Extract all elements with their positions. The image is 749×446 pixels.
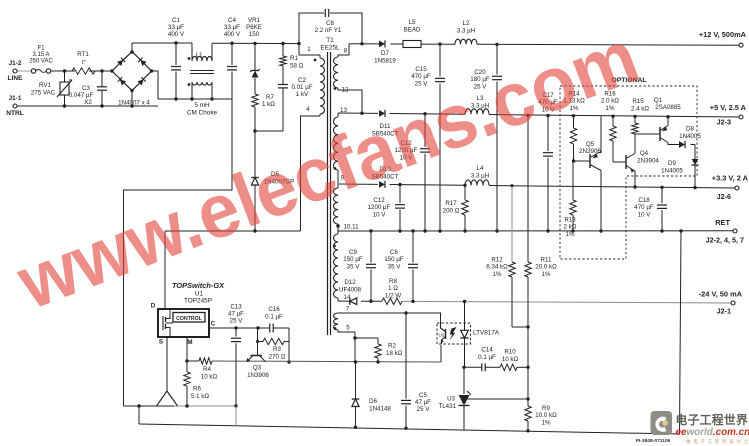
wire B- return down-left-down (124, 99, 233, 406)
resistor R6 (184, 361, 210, 406)
wire pin 12 link (339, 90, 362, 113)
svg-text:R17: R17 (445, 200, 457, 207)
wire R2 top (355, 338, 378, 344)
svg-text:1N4005: 1N4005 (661, 168, 683, 175)
svg-text:L5: L5 (409, 19, 416, 26)
node +3.3 R17/L4 (463, 184, 466, 187)
svg-text:10 kΩ: 10 kΩ (502, 356, 519, 363)
svg-text:C3: C3 (82, 85, 90, 92)
wire C pin line (209, 327, 258, 329)
resistor R11 (525, 257, 557, 278)
capacitor C12 (first) (395, 114, 430, 231)
svg-text:C16: C16 (268, 306, 280, 313)
svg-text:L4: L4 (477, 165, 484, 172)
node sense C14 line (526, 366, 529, 369)
svg-text:150 µF: 150 µF (343, 256, 363, 263)
wire B+ rail bridge to L1 (132, 42, 192, 44)
transformer T1 labels (306, 37, 359, 332)
svg-text:TOPSwitch-GX: TOPSwitch-GX (172, 281, 225, 290)
svg-text:D: D (151, 303, 156, 310)
inductor L2 (455, 20, 477, 44)
wire +12V rail D7 segment (349, 43, 403, 45)
svg-text:275 VAC: 275 VAC (31, 90, 56, 97)
wire -24V rail from D12/R8 (361, 301, 733, 303)
svg-text:13: 13 (340, 107, 347, 114)
wire opto transistor emitter (440, 345, 442, 362)
node +5 R11col (526, 114, 529, 117)
node sense ref line (526, 397, 529, 400)
svg-text:250 VAC: 250 VAC (29, 58, 53, 64)
svg-text:1N4007 x 4: 1N4007 x 4 (118, 100, 150, 107)
resistor R8 (382, 278, 402, 305)
capacitor C12 (second) (368, 185, 405, 231)
wire bottom return rail (139, 424, 680, 434)
resistor R9 (525, 399, 557, 426)
wire transformer pin 8 (339, 44, 349, 55)
node +5 R16 (611, 115, 614, 118)
bridge rectifier 1N4007 x 4 (110, 50, 153, 106)
svg-text:U2: U2 (439, 333, 445, 338)
node C14 line left (462, 366, 465, 369)
dashed box OPTIONAL (560, 77, 697, 259)
diode D9 (661, 145, 698, 188)
svg-text:1N4005: 1N4005 (679, 133, 701, 140)
svg-text:1%: 1% (542, 419, 551, 426)
node A (fuse/RV1 junction) (63, 69, 66, 72)
svg-text:J1-1: J1-1 (9, 95, 22, 102)
node RET R17 (463, 229, 466, 232)
node +5 C17 (546, 114, 549, 117)
node C5 bottom (404, 427, 407, 430)
wire R12 column (512, 186, 528, 327)
wire R1/C2 column (282, 44, 284, 132)
node +12 C20 (495, 43, 498, 46)
svg-text:J2-3: J2-3 (717, 118, 731, 127)
svg-text:25 V: 25 V (230, 318, 244, 325)
node C13 tap (234, 326, 237, 329)
transistor Q3 1N3906 (246, 356, 269, 380)
diode D10 (372, 166, 399, 188)
varistor RV1 (31, 71, 72, 106)
node B- L1 left stub (190, 97, 193, 100)
node return R6 (185, 404, 188, 407)
wire pin5 down (354, 332, 356, 362)
wire C14/R10 line (464, 366, 528, 368)
svg-text:U1: U1 (195, 291, 204, 298)
svg-text:T1: T1 (326, 37, 334, 44)
svg-text:电子工程世界: 电子工程世界 (676, 413, 749, 427)
terminal -24V (699, 290, 743, 316)
diode D6 (352, 362, 392, 427)
thermistor RT1 (72, 51, 95, 74)
svg-text:R13: R13 (564, 217, 576, 224)
svg-text:1%: 1% (542, 271, 551, 278)
svg-text:2.2 nF Y1: 2.2 nF Y1 (315, 27, 342, 34)
capacitor C4 (224, 17, 241, 99)
svg-text:470 µF: 470 µF (411, 73, 431, 80)
wire +12V rail bead to L2 (421, 43, 455, 45)
svg-text:C1: C1 (172, 17, 180, 24)
node C16/R3 left (256, 326, 259, 329)
capacitor C8 (315, 9, 342, 34)
terminal RET (706, 218, 744, 245)
svg-text:LTV817A: LTV817A (473, 330, 500, 337)
node B (RT1/C3 junction) (100, 69, 103, 72)
svg-text:200 Ω: 200 Ω (443, 208, 460, 215)
resistor R10 (500, 349, 519, 371)
node sense bottom (526, 429, 529, 432)
capacitor C18 (634, 187, 667, 231)
svg-text:TOP245P: TOP245P (184, 298, 212, 305)
svg-text:J2-1: J2-1 (717, 307, 731, 316)
node +5 R15 (633, 115, 636, 118)
node NTRL-C3 (100, 104, 103, 107)
svg-text:2N3906: 2N3906 (579, 148, 601, 155)
svg-text:RT1: RT1 (77, 51, 89, 58)
svg-text:47 µF: 47 µF (415, 399, 431, 406)
svg-text:18 kΩ: 18 kΩ (386, 350, 403, 357)
node pin5 R2 branch (353, 336, 356, 339)
svg-text:F1: F1 (37, 46, 45, 52)
wire RET to bottom return (680, 231, 682, 434)
svg-text:C9: C9 (349, 249, 357, 256)
svg-text:270 Ω: 270 Ω (269, 354, 286, 361)
svg-text:150 µF: 150 µF (384, 256, 404, 263)
node RET C9 (369, 229, 372, 232)
svg-text:C2: C2 (298, 77, 306, 84)
node +3.3 C12b (398, 183, 401, 186)
TVS VR1 (246, 17, 262, 78)
wire +5V rail D11 to L3 (390, 113, 466, 116)
wire +3.3V rail pin9 to D10 (339, 183, 378, 185)
wire M pin column (186, 337, 188, 361)
capacitor C9 (343, 231, 376, 301)
node bias D6 (354, 360, 357, 363)
svg-text:33 µF: 33 µF (168, 24, 184, 31)
wire pin 7 line to optocoupler (338, 313, 441, 323)
terminal +3.3V (712, 174, 749, 202)
svg-text:470 µF: 470 µF (634, 204, 654, 211)
transformer T1 secondary 13-9 (333, 113, 339, 188)
text PI-3848-071106 (636, 438, 671, 444)
svg-text:C8: C8 (326, 20, 334, 27)
wire opto LED anode (463, 300, 466, 330)
svg-text:C4: C4 (228, 17, 236, 24)
node NTRL-bridge (130, 104, 133, 107)
svg-text:0.1 µF: 0.1 µF (265, 314, 283, 321)
svg-text:D12: D12 (344, 279, 356, 286)
svg-text:R2: R2 (388, 343, 396, 350)
svg-text:R11: R11 (541, 257, 552, 264)
svg-text:D9: D9 (668, 160, 676, 167)
transformer T1 primary winding (314, 55, 325, 116)
capacitor C6 (384, 231, 418, 301)
node C8 right on +12 rail (360, 42, 363, 45)
svg-text:t°: t° (82, 60, 87, 66)
svg-text:P6KE: P6KE (246, 24, 262, 31)
capacitor C5 (401, 313, 431, 428)
wire left return vertical (138, 406, 140, 424)
node B- L1 right stub (210, 97, 213, 100)
svg-text:8: 8 (344, 48, 348, 55)
svg-text:D7: D7 (381, 50, 389, 57)
svg-text:M: M (187, 339, 192, 346)
node return C13col (234, 404, 237, 407)
resistor R13 (564, 161, 577, 238)
node B+ C1 (174, 41, 177, 44)
node -24 C9 (369, 300, 372, 303)
transformer T1 bias winding 7-5 (334, 313, 356, 332)
diode D5 (251, 171, 294, 186)
svg-text:C6: C6 (390, 249, 398, 256)
svg-text:33 µF: 33 µF (224, 24, 240, 31)
svg-text:1/2 W: 1/2 W (385, 292, 401, 299)
capacitor C15 (411, 44, 445, 231)
svg-text:58 Ω: 58 Ω (290, 63, 304, 70)
capacitor C16 (258, 306, 289, 333)
svg-text:2N3904: 2N3904 (637, 158, 659, 165)
connector J1-1 (6, 95, 24, 117)
capacitor C3 (69, 71, 107, 106)
transformer T1 secondary 9-10,11 (334, 188, 339, 226)
svg-text:10 V: 10 V (373, 211, 387, 218)
svg-text:5 mH: 5 mH (194, 102, 210, 109)
node NTRL-RV1 (63, 104, 66, 107)
inductor L4 (465, 165, 489, 185)
svg-text:0.01 µF: 0.01 µF (291, 84, 312, 91)
wire +5V rail L3 to output (489, 115, 741, 118)
transformer T1 core (328, 52, 331, 335)
svg-text:1%: 1% (566, 231, 575, 238)
svg-text:TL431: TL431 (438, 403, 456, 410)
svg-text:25 V: 25 V (417, 406, 431, 413)
wire C16/R3 left node column (256, 328, 259, 356)
transformer T1 winding 10,11-14 (333, 231, 338, 301)
svg-text:D6: D6 (369, 398, 377, 405)
svg-text:20.0 kΩ: 20.0 kΩ (535, 264, 557, 271)
connector J1-2 (7, 60, 23, 82)
wire bridge right corner to B- rail (152, 71, 159, 99)
node RET R13 (571, 229, 574, 232)
capacitor C1 (168, 17, 185, 99)
wire transformer pin 1 (299, 44, 316, 55)
node +3.3 D9 (693, 186, 696, 189)
svg-text:47 µF: 47 µF (228, 311, 244, 318)
wire clamp node link (255, 130, 283, 132)
node bias R2 (376, 360, 379, 363)
transistor Q1 2SA0885 (635, 97, 681, 145)
wire VR1 column (254, 43, 256, 231)
logo eeworld bottom right (651, 411, 749, 445)
resistor R3 (258, 338, 290, 360)
transistor Q5 2N3906 (574, 116, 602, 231)
svg-text:C13: C13 (230, 304, 242, 311)
svg-text:Q1: Q1 (654, 97, 663, 104)
svg-text:3.3 µH: 3.3 µH (471, 173, 489, 180)
svg-text:0.1 µF: 0.1 µF (478, 354, 496, 361)
svg-text:400 V: 400 V (224, 31, 241, 38)
choke L1 (187, 43, 218, 117)
svg-text:10,11: 10,11 (343, 224, 359, 231)
node B+ C4 (230, 42, 233, 45)
svg-text:RV1: RV1 (39, 82, 51, 89)
svg-text:L2: L2 (463, 20, 470, 27)
svg-text:+12 V, 500mA: +12 V, 500mA (699, 30, 747, 39)
node RET C18 (660, 229, 663, 232)
node pins 10,11 (336, 224, 339, 231)
transistor Q4 2N3904 (613, 134, 659, 187)
svg-text:C14: C14 (481, 347, 493, 354)
wire C13 lower column (235, 406, 237, 426)
svg-text:R10: R10 (504, 349, 516, 356)
wire TL431 ref line (467, 398, 528, 400)
svg-text:J2-2, 4, 5, 7: J2-2, 4, 5, 7 (706, 236, 744, 245)
wire sense column R11 (527, 115, 529, 430)
resistor R2 (375, 343, 403, 363)
terminal +5V (710, 103, 747, 127)
resistor R1 (280, 55, 304, 70)
resistor R15 (631, 98, 649, 134)
svg-text:10 kΩ: 10 kΩ (201, 374, 218, 381)
inductor L3 (465, 95, 489, 114)
svg-text:1 kΩ: 1 kΩ (262, 101, 275, 108)
svg-text:BEAD: BEAD (404, 27, 421, 34)
wire drain down to U1 D pin (164, 231, 166, 309)
svg-text:R12: R12 (491, 257, 503, 264)
resistor R17 (443, 185, 469, 231)
svg-text:R15: R15 (632, 98, 644, 105)
svg-text:C5: C5 (419, 392, 427, 399)
node +12 C15 (438, 42, 441, 45)
wire primary return y406 (124, 405, 237, 407)
svg-text:2SA0885: 2SA0885 (655, 104, 681, 111)
wire C8 top link (299, 13, 362, 44)
wire transformer pin 4 to drain link (301, 116, 317, 231)
svg-text:12: 12 (342, 87, 349, 94)
svg-text:4: 4 (306, 106, 310, 113)
svg-text:1 kV: 1 kV (296, 91, 309, 98)
node +3.3 Q4 emitter (633, 185, 636, 188)
svg-text:1%: 1% (493, 271, 502, 278)
svg-text:R3: R3 (273, 346, 281, 353)
svg-text:3.15 A: 3.15 A (32, 52, 49, 58)
node return left (137, 404, 140, 407)
node RET C6 (411, 229, 414, 232)
diode D11 (372, 110, 399, 138)
svg-text:D8: D8 (686, 126, 694, 133)
svg-text:VR1: VR1 (248, 17, 261, 24)
svg-text:J2-6: J2-6 (717, 192, 731, 201)
wire C16/R3 right node column (287, 328, 290, 364)
svg-text:Q4: Q4 (640, 150, 649, 157)
svg-text:1 Ω: 1 Ω (388, 285, 398, 292)
svg-text:1N3906: 1N3906 (247, 372, 269, 379)
svg-text:EE25L: EE25L (320, 45, 340, 52)
svg-text:1N5819: 1N5819 (374, 58, 396, 65)
node +5 C12a (423, 112, 426, 115)
wire bridge top to B+ rail (131, 43, 133, 52)
node B+ corner C8 (297, 42, 300, 45)
wire R4 line (187, 361, 441, 362)
capacitor C17 (538, 92, 558, 231)
svg-text:10 V: 10 V (638, 211, 652, 218)
wire RET rail (338, 230, 735, 232)
svg-text:做电子工程师设计之家: 做电子工程师设计之家 (686, 438, 749, 445)
wire opto LED cathode to C14 line (464, 338, 466, 367)
resistor R12 (486, 257, 515, 278)
svg-text:2 kΩ: 2 kΩ (564, 224, 577, 231)
spark gap (157, 391, 178, 406)
svg-text:35 V: 35 V (388, 263, 402, 270)
wire +3.3V rail L4 to output (489, 186, 737, 189)
svg-text:0.047 µF: 0.047 µF (69, 92, 94, 99)
svg-text:+3.3 V, 2 A: +3.3 V, 2 A (712, 174, 749, 183)
svg-text:35 V: 35 V (347, 263, 361, 270)
svg-text:-24 V, 50 mA: -24 V, 50 mA (699, 290, 743, 299)
svg-text:C15: C15 (415, 66, 427, 73)
ferrite bead L5 (403, 19, 421, 48)
svg-text:Q5: Q5 (586, 141, 595, 148)
svg-text:J1-2: J1-2 (9, 60, 22, 67)
node D6 bottom (354, 426, 357, 429)
resistor R14 (563, 91, 585, 162)
svg-text:eeworld.com.cn: eeworld.com.cn (676, 427, 749, 438)
optocoupler U2 LTV817A (437, 323, 500, 344)
watermark www.elecfans.com (6, 14, 649, 326)
node +5 R14 (572, 114, 575, 117)
svg-text:400 V: 400 V (168, 31, 185, 38)
capacitor C2 (278, 77, 313, 98)
svg-text:6.34 kΩ: 6.34 kΩ (486, 264, 508, 271)
capacitor C20 (470, 44, 502, 231)
node -24 C6 (411, 300, 414, 303)
capacitor C13 (228, 304, 244, 407)
svg-text:2.4 kΩ: 2.4 kΩ (631, 106, 649, 113)
node RET C15 (438, 229, 441, 232)
node B+ R1 (281, 42, 284, 45)
svg-text:R9: R9 (542, 405, 550, 412)
svg-text:NTRL: NTRL (6, 110, 24, 117)
diode D8 (679, 126, 701, 149)
svg-text:Q3: Q3 (253, 365, 262, 372)
node RET C20 (495, 229, 498, 232)
node RET right return (679, 229, 682, 232)
svg-text:3.3 µH: 3.3 µH (457, 28, 475, 35)
svg-text:7: 7 (346, 306, 350, 313)
svg-text:C18: C18 (638, 197, 650, 204)
shunt regulator U3 TL431 (438, 391, 471, 410)
svg-text:LINE: LINE (7, 75, 23, 82)
node +5 Q1 emitter (666, 115, 669, 118)
node RET C12b (398, 229, 401, 232)
svg-text:UF4008: UF4008 (339, 287, 362, 294)
svg-text:S: S (159, 339, 163, 346)
svg-text:C: C (211, 321, 216, 328)
wire NTRL rail J1-1 to bridge bottom (17, 105, 158, 107)
capacitor C14 (478, 347, 496, 372)
node B+ VR1 (253, 42, 256, 45)
svg-text:X2: X2 (84, 99, 92, 106)
node sense R12 join (526, 325, 529, 328)
terminal +12V (699, 30, 747, 47)
node clamp (253, 129, 256, 132)
transformer T1 secondary 8-12 (334, 55, 340, 90)
wire +3.3V rail D10 to L4 (390, 184, 466, 187)
svg-text:5: 5 (346, 325, 350, 332)
svg-text:U3: U3 (447, 396, 455, 403)
node RET C17 (546, 229, 549, 232)
wire LINE input from J1-2 to bridge (17, 70, 112, 72)
